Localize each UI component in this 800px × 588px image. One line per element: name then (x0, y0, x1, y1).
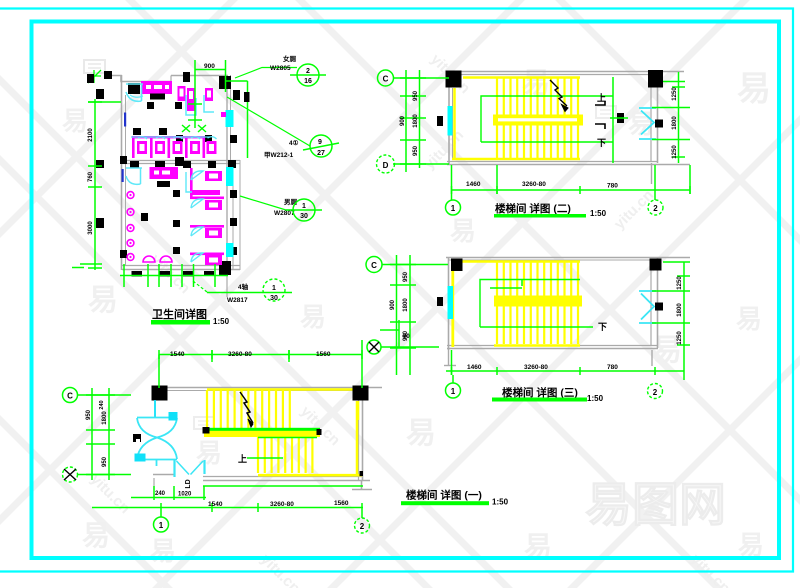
left wall floor drains (magenta) (127, 192, 134, 261)
toilet wall bottom (122, 265, 240, 267)
svg-text:16: 16 (304, 78, 312, 85)
wall bottom (3) (447, 345, 658, 347)
callout 3 bubble (293, 199, 315, 221)
svg-text:W2805: W2805 (270, 65, 291, 72)
landing rail thick bar (3) (494, 296, 582, 307)
wall bottom (447, 161, 658, 163)
skirting bottom treads (3) (494, 344, 580, 347)
urinal group (magenta tall) (178, 86, 186, 101)
left dim lines (3) (396, 255, 398, 375)
door handle block (655, 120, 663, 128)
wall below-left stub (3) (448, 350, 450, 366)
svg-text:3260-80: 3260-80 (524, 364, 548, 371)
treads (3) (497, 262, 578, 344)
wall left (448, 72, 450, 164)
wall stub right of door (650, 71, 652, 87)
svg-text:LD: LD (185, 479, 192, 488)
stair landing rail (thick yellow bar) (493, 115, 583, 126)
svg-text:1800: 1800 (677, 303, 683, 317)
lower room sink counter (magenta) (150, 167, 179, 179)
svg-text:1560: 1560 (316, 351, 331, 358)
svg-text:950: 950 (403, 271, 409, 282)
svg-text:900: 900 (204, 63, 215, 70)
svg-text:2: 2 (653, 388, 658, 397)
svg-text:1:50: 1:50 (587, 394, 604, 403)
grid bubble D bottom (648, 200, 663, 215)
svg-text:4①: 4① (289, 139, 299, 147)
grid bubble C (3) (366, 257, 382, 273)
wall top (3) (446, 257, 690, 259)
svg-text:90: 90 (403, 334, 410, 340)
wall top (1) (152, 387, 382, 389)
stray wall line bottom right (226, 270, 228, 297)
svg-text:1: 1 (451, 204, 456, 213)
wc stall door arcs cyan (191, 171, 203, 262)
window label mark (437, 116, 443, 126)
magenta bar lower room (192, 190, 220, 195)
treads upper flight (1) (207, 390, 290, 428)
grid bubble C (378, 70, 394, 86)
svg-text:900: 900 (400, 115, 406, 126)
svg-text:1250: 1250 (672, 145, 678, 159)
svg-text:30: 30 (300, 213, 308, 220)
window right wall upper (cyan) (226, 110, 234, 127)
callout 2 leader (227, 97, 310, 146)
big double door cyan (1) (137, 418, 177, 467)
blue jamb marks (124, 113, 126, 127)
wall right (3) (650, 270, 652, 346)
svg-text:950: 950 (413, 145, 419, 156)
column left (1) (152, 386, 168, 401)
svg-text:30: 30 (270, 295, 278, 302)
door mid mark (3) (655, 303, 663, 311)
bottom dim line 1a (1) (203, 485, 363, 487)
left dim line b (419, 70, 421, 168)
wc stall column (magenta partitions) (190, 168, 224, 265)
direction arrow (550, 80, 567, 106)
svg-text:1540: 1540 (170, 351, 185, 358)
svg-text:780: 780 (607, 183, 618, 190)
column top-left (3) (451, 259, 463, 272)
dim ticks left (400, 77, 426, 79)
green fixture crosses (194, 88, 196, 128)
wall stub below right wall (2) (651, 163, 653, 184)
svg-text:易: 易 (450, 216, 476, 246)
stair treads upper flight (497, 77, 578, 158)
svg-text:2: 2 (653, 204, 658, 213)
svg-text:950: 950 (86, 409, 92, 420)
svg-text:易: 易 (88, 284, 118, 317)
door jamb cyan below column (1) (154, 400, 156, 417)
svg-text:C: C (371, 261, 377, 270)
svg-text:1: 1 (302, 203, 306, 210)
svg-text:2100: 2100 (88, 128, 94, 142)
svg-text:760: 760 (88, 171, 94, 182)
grid bubble 1 bottom (446, 200, 461, 215)
magenta mark right wall (221, 112, 226, 117)
bottom dim line 1b (1) (131, 497, 206, 499)
toilet wall right upper (226, 75, 228, 163)
skirting bottom (452, 158, 580, 161)
green tick on rail (3) (521, 280, 523, 287)
left dim end cross (72, 267, 84, 269)
squat stall row (magenta) (132, 136, 217, 158)
svg-text:楼梯间 详图 (三): 楼梯间 详图 (三) (502, 386, 578, 399)
green rail lower flight (1) (258, 437, 317, 439)
callout 1 leader (235, 68, 297, 79)
green wall line right of stair (612, 77, 614, 163)
watermark bubble icon (84, 60, 105, 73)
footing mark below right wall (1) (361, 481, 363, 489)
column top-right (648, 70, 663, 88)
left dim lines (1) (91, 388, 93, 480)
skirting bottom lower flight (1) (258, 474, 362, 477)
grid bubble 2 bottom (1) (361, 512, 363, 518)
skirting right of column (1) yellow vertical (357, 401, 360, 420)
svg-text:1:50: 1:50 (213, 317, 230, 326)
svg-text:1250: 1250 (677, 331, 683, 345)
wall right (1) (358, 400, 360, 481)
door corner squares cyan (1) (169, 412, 178, 421)
grid bubble 1 bottom (3) (446, 383, 461, 398)
svg-text:上: 上 (238, 453, 247, 464)
toilet wall right stub (239, 160, 241, 270)
svg-text:易: 易 (738, 530, 764, 560)
svg-text:1800: 1800 (413, 114, 419, 128)
bottom small basins magenta (143, 256, 155, 262)
squat stall cyan arcs (131, 137, 217, 139)
svg-text:卫生间详图: 卫生间详图 (152, 307, 207, 321)
door side black mark (1) (133, 434, 141, 442)
svg-text:780: 780 (607, 364, 618, 371)
svg-text:9: 9 (318, 139, 322, 146)
window label mark (3) (437, 297, 443, 306)
column right (1) (353, 386, 369, 401)
stair well green rail (3) (480, 280, 580, 328)
skirting left (453, 88, 456, 160)
svg-text:900: 900 (390, 299, 396, 310)
svg-text:1800: 1800 (672, 116, 678, 130)
grid bubble D (1) (63, 467, 78, 482)
grid bubble C (1) (63, 388, 78, 403)
right dim line (3) (683, 262, 685, 380)
window C1 (cyan) left wall (448, 106, 453, 136)
svg-text:楼梯间 详图 (二): 楼梯间 详图 (二) (495, 202, 571, 215)
toilet wall right lower (226, 163, 228, 270)
wall right (650, 87, 652, 161)
svg-text:1460: 1460 (466, 181, 481, 188)
svg-text:下: 下 (597, 138, 606, 148)
grid bubble 1/D (377, 155, 395, 173)
svg-text:240: 240 (99, 400, 105, 409)
skirting left (3) (451, 260, 454, 347)
skirting top (1) (207, 388, 353, 391)
svg-text:1250: 1250 (672, 87, 678, 101)
wall fill blocks (96, 71, 240, 277)
svg-text:1: 1 (159, 521, 164, 530)
svg-text:W2807: W2807 (274, 210, 295, 217)
toilet bottom dim line (120, 275, 228, 277)
toilet left dim line (94, 99, 96, 270)
door arc top-left (cyan) (126, 84, 143, 101)
left dim line a (405, 70, 407, 172)
svg-text:2: 2 (360, 522, 365, 531)
treads lower flight (1) (258, 437, 312, 473)
svg-text:1: 1 (272, 285, 276, 292)
right dim line (678, 72, 680, 163)
svg-text:240: 240 (155, 491, 166, 497)
svg-text:950: 950 (413, 90, 419, 101)
bottom dim line (3) (446, 370, 684, 372)
grid line D (393, 163, 449, 165)
svg-text:D: D (383, 161, 389, 170)
riser green vertical right of plan (247, 81, 249, 158)
wall top (446, 71, 684, 73)
block right of wall (244, 92, 250, 102)
callout 3 leader (240, 196, 293, 210)
svg-text:950: 950 (102, 456, 108, 467)
svg-text:1800: 1800 (102, 411, 108, 425)
watermark glyphs (62, 67, 771, 566)
svg-text:易图网: 易图网 (585, 478, 726, 531)
toilet top-left mark (88, 70, 101, 83)
svg-text:易: 易 (300, 302, 326, 332)
svg-text:3260-80: 3260-80 (522, 181, 546, 188)
lower room door arc cyan (126, 168, 142, 184)
svg-text:楼梯间 详图 (一): 楼梯间 详图 (一) (406, 489, 482, 502)
svg-text:女厕: 女厕 (283, 54, 297, 63)
svg-text:3260-80: 3260-80 (228, 351, 252, 358)
callout 4 bubble (263, 279, 285, 301)
skirting top (3) (452, 260, 580, 263)
wall bottom-left segment (1) (153, 474, 175, 476)
svg-text:易: 易 (62, 106, 88, 136)
svg-text:C: C (67, 392, 73, 401)
svg-text:1020: 1020 (178, 492, 192, 498)
svg-text:1560: 1560 (334, 500, 349, 507)
grid bubble top-right (1) (367, 340, 381, 354)
column top-left (446, 71, 462, 88)
wall left (3) (448, 257, 450, 350)
small door arc cyan (1) (173, 460, 175, 477)
right dim ticks (672, 86, 685, 88)
top dim line (1) (159, 354, 362, 356)
door arc marks (130, 95, 143, 97)
callout 4 leader (193, 281, 207, 292)
landing bar (1) green top (204, 428, 320, 431)
grid line C (393, 77, 449, 79)
svg-text:易: 易 (737, 70, 771, 108)
window C1 left wall (3) (448, 286, 454, 319)
bottom dim line 2 (1) (92, 507, 363, 509)
svg-text:易: 易 (82, 520, 110, 551)
door (cyan double leaf) right wall (639, 108, 656, 139)
svg-text:2: 2 (306, 68, 310, 75)
svg-text:3000: 3000 (88, 221, 94, 235)
skirting right (1) (356, 401, 359, 476)
callout 1 bubble (297, 64, 319, 86)
stair well green rail (481, 96, 613, 142)
grid bubble 2 bottom (3) (648, 384, 663, 399)
watermark bubble icon 3 (596, 106, 616, 118)
svg-text:W2817: W2817 (227, 297, 248, 304)
svg-text:4轴: 4轴 (238, 282, 249, 291)
svg-text:1250: 1250 (677, 276, 683, 290)
svg-text:1:50: 1:50 (492, 498, 509, 507)
wall stub below right wall (3) (651, 350, 653, 366)
svg-text:1540: 1540 (208, 501, 223, 508)
watermark bubble icon 2 (194, 417, 214, 429)
svg-text:甲W212-1: 甲W212-1 (264, 151, 294, 159)
svg-text:C: C (383, 75, 389, 84)
door cyan right wall (3) (639, 291, 656, 323)
direction arrow (1) (240, 392, 253, 423)
column top-right (3) (650, 259, 662, 271)
toilet wall middle (122, 160, 240, 162)
bottom dim line (2) (451, 189, 690, 191)
skirting top (463, 76, 580, 79)
toilet top dim (195, 69, 226, 71)
svg-text:易: 易 (736, 304, 762, 334)
svg-text:1460: 1460 (467, 364, 482, 371)
landing bar end blocks (1) (203, 427, 210, 434)
small dim above (1) (380, 329, 399, 331)
svg-text:下: 下 (598, 322, 607, 332)
svg-text:27: 27 (317, 150, 325, 157)
sink counter top room (magenta) (141, 81, 172, 94)
svg-text:1: 1 (451, 387, 456, 396)
wall bottom (1) (203, 476, 363, 478)
svg-text:易: 易 (150, 536, 176, 566)
callout 2 bubble (310, 135, 332, 157)
svg-text:男厕: 男厕 (283, 197, 298, 206)
landing bar (1) yellow (204, 431, 320, 438)
grid bubble 1 bottom (1) (160, 512, 162, 517)
mid rail mark (617, 113, 624, 123)
svg-text:易: 易 (406, 417, 436, 450)
toilet walls gray (104, 76, 228, 82)
svg-text:1800: 1800 (403, 298, 409, 312)
urinal cyan pipes (186, 95, 196, 115)
svg-text:3260-80: 3260-80 (270, 501, 294, 508)
window right wall lower (cyan) (226, 167, 234, 186)
cyan pipe lower room (186, 172, 196, 192)
svg-text:1:50: 1:50 (590, 209, 607, 218)
